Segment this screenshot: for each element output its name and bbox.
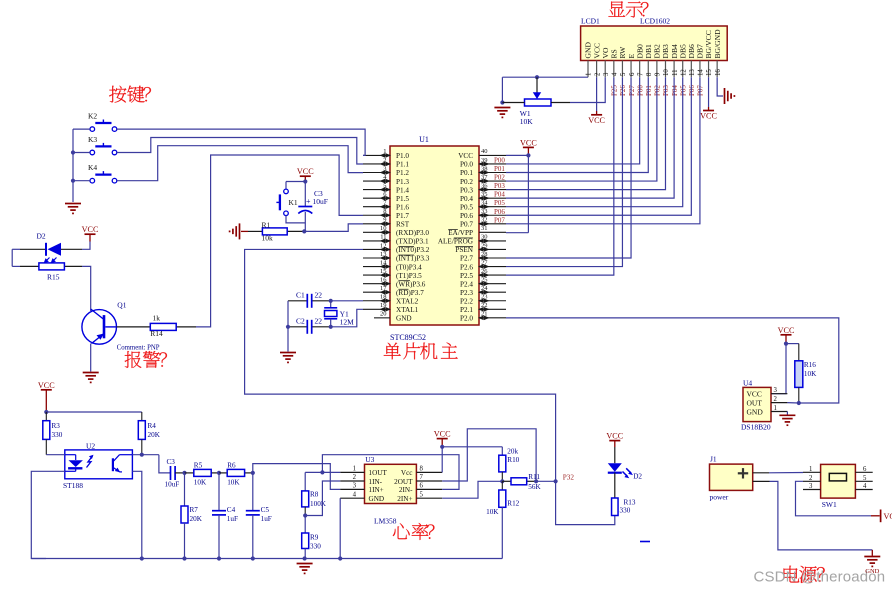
svg-text:P01: P01	[494, 165, 505, 173]
svg-text:P1.5: P1.5	[396, 195, 409, 203]
U1 pin 39 P0.0	[460, 157, 506, 169]
svg-text:P0.6: P0.6	[460, 212, 473, 220]
junction R4 bottom	[140, 453, 144, 457]
svg-text:40: 40	[481, 148, 488, 155]
junction reset VCC	[303, 179, 307, 183]
svg-text:R4: R4	[148, 422, 157, 430]
junction crystal left	[286, 325, 290, 329]
U1 pin 24 P2.3	[460, 285, 506, 297]
svg-text:P1.4: P1.4	[396, 186, 409, 194]
svg-text:2: 2	[594, 72, 601, 76]
junction R11 right	[534, 479, 538, 483]
svg-text:P1.0: P1.0	[396, 152, 409, 160]
U4 pin 2 OUT	[747, 396, 788, 407]
svg-text:(RD)P3.7: (RD)P3.7	[396, 289, 424, 297]
svg-text:R8: R8	[310, 491, 319, 499]
power VCC LCD pin2	[588, 111, 605, 125]
LCD pin 14 DB7	[696, 44, 705, 77]
wire sensor top rail	[46, 411, 142, 413]
wire P2.7 to LCD pin 6	[506, 77, 631, 258]
junction reset node	[302, 229, 306, 233]
svg-text:6: 6	[629, 72, 636, 76]
U1 pin 20 GND	[374, 311, 412, 323]
svg-text:7: 7	[637, 72, 644, 76]
wire Q1 emitter to ground	[90, 344, 92, 372]
svg-text:VCC: VCC	[520, 138, 537, 147]
svg-text:K3: K3	[88, 135, 97, 144]
dash mark	[640, 541, 650, 543]
wire LCD pin1 GND rail	[502, 77, 588, 102]
wire P0.6 to LCD DB6	[506, 77, 691, 215]
junction rail C4	[217, 556, 221, 560]
svg-text:R1: R1	[262, 221, 271, 230]
svg-text:(TXD)P3.1: (TXD)P3.1	[396, 238, 429, 246]
LED D2	[608, 447, 643, 481]
svg-text:(INT1)P3.3: (INT1)P3.3	[396, 255, 430, 263]
SW1 pin 1	[803, 466, 821, 473]
svg-text:20K: 20K	[190, 515, 203, 523]
svg-text:15: 15	[380, 268, 387, 275]
U3 pin 8 Vcc	[401, 466, 442, 478]
LCD pin 15 BG/VCC	[704, 30, 713, 77]
svg-text:29: 29	[481, 242, 488, 249]
capacitor C1 22	[288, 291, 331, 308]
wire K1 bottom	[286, 216, 305, 223]
svg-text:P2.4: P2.4	[460, 280, 473, 288]
wire P0.1 to LCD DB1	[506, 77, 648, 172]
svg-text:P27: P27	[628, 85, 636, 96]
svg-text:ALE/PROG: ALE/PROG	[438, 238, 473, 246]
svg-text:power: power	[710, 493, 729, 502]
LCD pin 13 DB6	[687, 44, 696, 77]
power VCC sensor	[38, 381, 55, 412]
junction DS18B20 VCC	[784, 342, 788, 346]
svg-text:15: 15	[706, 69, 713, 76]
svg-text:P01: P01	[645, 85, 653, 96]
svg-text:D2: D2	[633, 473, 642, 481]
svg-text:1IN+: 1IN+	[369, 486, 384, 494]
capacitor C5 1uF	[246, 473, 272, 559]
resistor R3 330	[43, 412, 63, 455]
svg-text:P05: P05	[494, 199, 505, 207]
svg-text:U1: U1	[419, 135, 429, 144]
svg-text:P07: P07	[697, 85, 705, 96]
svg-text:32: 32	[481, 217, 488, 224]
U1 pin 31 EA/VPP	[448, 225, 506, 237]
svg-text:13: 13	[380, 251, 387, 258]
U1 pin 18 XTAL2	[363, 294, 419, 306]
U1 pin 14 (T0)P3.4	[363, 259, 422, 271]
svg-text:22: 22	[315, 291, 323, 300]
title 电源? (power)	[784, 566, 825, 583]
switch SW1 box	[821, 464, 856, 498]
U1 pin 9 RST	[363, 217, 410, 229]
svg-text:R6: R6	[227, 462, 236, 470]
svg-text:VCC: VCC	[434, 430, 451, 439]
svg-text:VCC: VCC	[884, 512, 892, 521]
svg-text:1uF: 1uF	[227, 515, 238, 523]
U1 pin 6 P1.5	[363, 191, 409, 203]
junction rail U3 GND	[338, 556, 342, 560]
resistor R13 330	[612, 473, 636, 516]
LCD pin 11 DB4	[670, 44, 679, 77]
svg-text:37: 37	[481, 174, 488, 181]
svg-text:P06: P06	[494, 208, 505, 216]
svg-text:30: 30	[481, 234, 488, 241]
junction buttons rail K4	[71, 179, 75, 183]
svg-text:6: 6	[420, 483, 424, 490]
svg-text:330: 330	[310, 542, 321, 550]
svg-text:R16: R16	[804, 361, 816, 369]
U4 pin 3 VCC	[747, 387, 788, 398]
wire 2IN+ to divider	[442, 481, 502, 498]
SW1 pin 5	[855, 475, 872, 482]
svg-text:33: 33	[481, 208, 488, 215]
wire OUT to R16	[787, 402, 798, 404]
svg-text:ST188: ST188	[63, 481, 83, 490]
svg-text:GND: GND	[396, 315, 412, 323]
svg-text:EA/VPP: EA/VPP	[448, 229, 473, 237]
svg-text:P2.0: P2.0	[460, 315, 473, 323]
wire VCC pin40 EA	[506, 147, 528, 232]
svg-text:22: 22	[315, 317, 323, 326]
junction W1 left	[500, 100, 504, 104]
svg-text:5: 5	[620, 72, 627, 76]
power VCC LED	[606, 432, 623, 447]
wire U3 Vcc	[442, 439, 502, 473]
svg-text:1IN-: 1IN-	[369, 478, 383, 486]
svg-text:4: 4	[353, 491, 357, 498]
svg-text:11: 11	[672, 69, 679, 76]
junction R5 R6	[217, 471, 221, 475]
wire U2 cathode to rail	[31, 471, 65, 558]
svg-text:U2: U2	[86, 441, 95, 450]
svg-text:K1: K1	[289, 198, 298, 207]
capacitor C3 reset 10uF	[298, 182, 328, 232]
svg-text:10: 10	[380, 225, 387, 232]
svg-text:2: 2	[809, 475, 813, 482]
svg-text:4: 4	[863, 483, 867, 490]
U1 pin 12 (INT0)P3.2	[363, 242, 430, 254]
U1 pin 5 P1.4	[363, 182, 409, 194]
U1 pin 30 ALE/PROG	[438, 234, 506, 246]
wire LCD pin2 VCC	[596, 77, 598, 111]
svg-text:5: 5	[420, 491, 424, 498]
pushbutton K3	[88, 135, 117, 155]
diode D2 (alarm)	[20, 232, 82, 256]
junction rail U2 emitter	[140, 556, 144, 560]
title 心率? (heart rate)	[393, 523, 435, 540]
resistor R5 10K	[185, 462, 220, 487]
U1 pin 13 (INT1)P3.3	[363, 251, 430, 263]
svg-text:P1.3: P1.3	[396, 178, 409, 186]
wire P3.2 net to P32 node	[245, 249, 556, 481]
svg-text:GND: GND	[369, 495, 385, 503]
svg-text:P03: P03	[662, 85, 670, 96]
svg-text:R5: R5	[194, 462, 203, 470]
svg-text:2: 2	[774, 396, 778, 403]
junction R6 C5	[251, 471, 255, 475]
wire R15 to Q1 collector	[82, 266, 91, 311]
svg-text:3: 3	[809, 483, 813, 490]
wire W1 wiper to LCD VO	[570, 77, 605, 102]
svg-text:10K: 10K	[486, 508, 499, 516]
svg-text:3: 3	[603, 72, 610, 76]
svg-text:22: 22	[481, 302, 488, 309]
svg-text:2OUT: 2OUT	[394, 478, 413, 486]
svg-text:P1.6: P1.6	[396, 203, 409, 211]
wire P2.0 to DS18B20	[506, 318, 839, 403]
svg-text:P05: P05	[679, 85, 687, 96]
wire J1 plus to SW1 pin1	[753, 472, 803, 474]
capacitor C2 22	[288, 317, 331, 334]
svg-text:VCC: VCC	[588, 116, 605, 125]
svg-text:P00: P00	[494, 156, 505, 164]
junction W1 arrow	[535, 75, 539, 79]
svg-text:P0.5: P0.5	[460, 203, 473, 211]
svg-text:24: 24	[481, 285, 488, 292]
wire C1 to XTAL2	[331, 300, 363, 302]
svg-text:D2: D2	[37, 232, 46, 241]
resistor R11 56K	[502, 473, 541, 491]
svg-text:12: 12	[380, 242, 387, 249]
svg-text:P0.3: P0.3	[460, 186, 473, 194]
wire P2.6 to LCD pin 5	[506, 77, 622, 266]
svg-text:36: 36	[481, 182, 488, 189]
photoresistor R15	[20, 258, 82, 282]
svg-text:U3: U3	[365, 455, 374, 464]
svg-text:20k: 20k	[507, 447, 518, 455]
wire reset to RST	[304, 224, 363, 232]
LCD pin 3 VO	[601, 47, 610, 77]
svg-text:39: 39	[481, 157, 488, 164]
svg-text:17: 17	[380, 285, 387, 292]
svg-text:9: 9	[655, 72, 662, 76]
wire U2 collector node	[132, 454, 159, 456]
wire R11 to P32 node	[536, 480, 556, 482]
svg-text:DS18B20: DS18B20	[741, 422, 771, 431]
U1 pin 38 P0.1	[460, 165, 506, 177]
svg-text:100K: 100K	[310, 500, 327, 508]
svg-text:Q1: Q1	[117, 301, 126, 310]
title 按键? (buttons)	[109, 86, 151, 103]
resistor R16 10K	[795, 344, 817, 403]
U1 pin 40 VCC	[458, 148, 506, 160]
svg-text:U4: U4	[743, 378, 752, 387]
svg-text:(RXD)P3.0: (RXD)P3.0	[396, 229, 429, 237]
svg-text:R14: R14	[150, 329, 163, 338]
U3 pin 6 2IN-	[399, 483, 442, 495]
svg-text:P1.1: P1.1	[396, 161, 409, 169]
LCD pin 8 DB1	[644, 44, 653, 77]
svg-text:P0.2: P0.2	[460, 178, 473, 186]
svg-text:P02: P02	[494, 174, 505, 182]
connector J1 power box	[710, 464, 753, 490]
svg-text:P2.6: P2.6	[460, 263, 473, 271]
wire R8 bottom to 1IN-	[305, 481, 340, 516]
U3 pin 3 1IN+	[340, 483, 384, 495]
svg-text:K4: K4	[88, 163, 97, 172]
svg-text:P0.7: P0.7	[460, 221, 473, 229]
svg-text:23: 23	[481, 294, 488, 301]
U1 pin 16 (WR)P3.6	[363, 276, 426, 288]
U1 pin 26 P2.5	[460, 268, 506, 280]
svg-text:BG/GND: BG/GND	[713, 29, 722, 59]
temperature sensor U4 DS18B20 box	[743, 387, 771, 421]
ground rail symbol	[297, 563, 313, 565]
svg-text:4: 4	[612, 72, 619, 76]
U1 pin 19 XTAL1	[363, 302, 419, 314]
svg-text:(INT0)P3.2: (INT0)P3.2	[396, 246, 430, 254]
svg-text:8: 8	[420, 466, 424, 473]
wire SW1 pin2 to VCC	[796, 481, 872, 516]
svg-text:1uF: 1uF	[261, 515, 272, 523]
svg-text:1: 1	[809, 466, 812, 473]
ground DS18B20	[779, 414, 795, 416]
U1 pin 11 (TXD)P3.1	[363, 234, 429, 246]
wire crystal left rail	[287, 301, 289, 327]
junction divider	[500, 479, 504, 483]
svg-text:VCC: VCC	[297, 167, 314, 176]
U1 pin 10 (RXD)P3.0	[363, 225, 429, 237]
ground power GND	[864, 557, 880, 576]
svg-text:8: 8	[383, 208, 386, 215]
wire P32 to R13	[556, 481, 615, 524]
svg-text:16: 16	[715, 69, 722, 76]
wire P0.2 to LCD DB2	[506, 77, 657, 181]
svg-text:LCD1602: LCD1602	[640, 17, 670, 26]
crystal Y1 12M	[324, 301, 354, 327]
svg-text:P0.4: P0.4	[460, 195, 473, 203]
power VCC U3	[437, 438, 448, 440]
svg-text:1: 1	[353, 466, 356, 473]
ground Q1	[83, 372, 99, 374]
resistor R7 20K	[181, 473, 203, 559]
wire K3 to P1.1	[117, 138, 363, 165]
svg-text:10k: 10k	[262, 234, 274, 243]
U1 pin 28 P2.7	[460, 251, 506, 263]
U1 pin 35 P0.4	[460, 191, 506, 203]
svg-text:VCC: VCC	[38, 381, 55, 390]
svg-text:R12: R12	[507, 499, 519, 507]
svg-text:7: 7	[420, 474, 424, 481]
svg-text:R7: R7	[190, 506, 199, 514]
SW1 pin 4	[855, 483, 872, 490]
resistor R14	[117, 313, 197, 338]
U1 pin 25 P2.4	[460, 276, 506, 288]
U1 pin 23 P2.2	[460, 294, 506, 306]
svg-text:VCC: VCC	[458, 152, 473, 160]
LCD pin 12 DB5	[678, 44, 687, 77]
title 报警? (alarm)	[125, 351, 167, 368]
svg-text:13: 13	[689, 69, 696, 76]
U1 pin 21 P2.0	[460, 311, 506, 323]
svg-text:3: 3	[774, 387, 778, 394]
wire signal to 1IN+	[253, 464, 340, 490]
svg-text:PSEN: PSEN	[455, 246, 473, 254]
wire U2 emitter to rail	[132, 471, 141, 558]
svg-text:SW1: SW1	[822, 500, 837, 509]
svg-text:XTAL1: XTAL1	[396, 306, 419, 314]
wire J1 minus to ground	[753, 481, 873, 555]
svg-text:R11: R11	[528, 473, 540, 481]
transistor Q1 PNP	[82, 301, 160, 352]
svg-text:10uF: 10uF	[165, 481, 180, 489]
svg-text:P2.1: P2.1	[460, 306, 473, 314]
svg-text:19: 19	[380, 302, 387, 309]
LCD pin 7 DB0	[635, 44, 644, 77]
svg-text:LM358: LM358	[374, 517, 397, 526]
svg-text:25: 25	[481, 276, 488, 283]
wire U3 GND to rail	[339, 498, 341, 558]
junction VCC pin40	[526, 153, 530, 157]
svg-text:10K: 10K	[227, 479, 240, 487]
svg-text:VCC: VCC	[778, 326, 795, 335]
svg-text:P06: P06	[688, 85, 696, 96]
title 单片机主 (MCU main)	[384, 343, 458, 360]
svg-text:5: 5	[383, 182, 386, 189]
power VCC right	[871, 510, 892, 523]
wire P0.5 to LCD DB5	[506, 77, 683, 207]
svg-text:GND: GND	[865, 568, 879, 575]
wire P2.5 to LCD pin 4	[506, 77, 614, 275]
svg-text:P2.5: P2.5	[460, 272, 473, 280]
svg-text:P2.2: P2.2	[460, 297, 473, 305]
junction rail R7	[182, 556, 186, 560]
svg-text:GND: GND	[747, 407, 764, 416]
U1 pin 27 P2.6	[460, 259, 506, 271]
wire D2 left loop	[12, 249, 20, 266]
U1 pin 36 P0.3	[460, 182, 506, 194]
svg-text:P25: P25	[611, 85, 619, 96]
svg-text:14: 14	[698, 69, 705, 76]
svg-text:2IN+: 2IN+	[397, 495, 412, 503]
svg-text:P07: P07	[494, 216, 505, 224]
svg-text:12: 12	[680, 69, 687, 76]
U1 pin 29 PSEN	[455, 242, 506, 254]
junction P32	[554, 479, 558, 483]
wire button left rail	[73, 129, 90, 202]
svg-text:LCD1: LCD1	[581, 17, 600, 26]
U1 pin 4 P1.3	[363, 174, 409, 186]
svg-text:XTAL2: XTAL2	[396, 297, 419, 305]
U3 pin 4 GND	[340, 491, 384, 503]
U1 pin 7 P1.6	[363, 200, 409, 212]
svg-text:330: 330	[52, 431, 63, 439]
svg-text:10K: 10K	[804, 370, 817, 378]
svg-text:8: 8	[646, 72, 653, 76]
svg-text:2: 2	[353, 474, 357, 481]
svg-text:20: 20	[380, 311, 387, 318]
svg-text:R15: R15	[47, 273, 60, 282]
ground R1 left	[239, 223, 241, 239]
LCD pin 9 DB2	[653, 44, 662, 77]
wire K2 to P1.0	[117, 129, 365, 155]
wire P0.4 to LCD DB4	[506, 77, 674, 198]
optocoupler sensor U2 ST188	[63, 441, 132, 490]
svg-text:10K: 10K	[520, 117, 534, 126]
svg-text:+: +	[306, 197, 311, 206]
svg-text:P26: P26	[619, 85, 627, 96]
svg-text:38: 38	[481, 165, 488, 172]
U3 pin 1 1OUT	[340, 466, 387, 478]
svg-text:VCC: VCC	[82, 225, 99, 234]
LCD pin 10 DB3	[661, 44, 670, 77]
junction 1OUT	[320, 470, 324, 474]
ground buttons	[65, 203, 81, 205]
svg-text:J1: J1	[710, 455, 717, 464]
LCD pin 4 RS	[610, 49, 619, 77]
